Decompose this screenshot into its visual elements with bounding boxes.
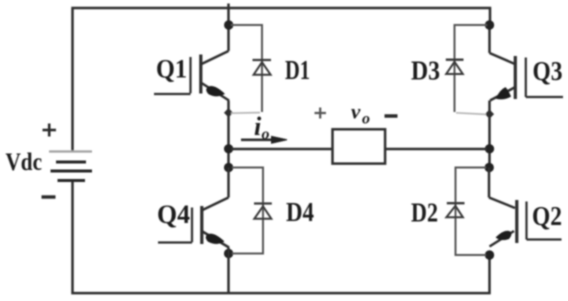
load box (333, 129, 386, 163)
transistor Q4 (158, 198, 229, 248)
node junction dot bottom-left (224, 249, 232, 257)
wire bottom rail (73, 181, 490, 294)
transistor Q1 (154, 51, 229, 101)
wire top rail (73, 8, 491, 152)
node junction dot right mid-rail (485, 145, 493, 153)
wire faint D1 return (231, 112, 260, 115)
svg-text:Vdc: Vdc (6, 149, 43, 176)
label battery plus (43, 124, 57, 137)
wire right leg middle (488, 101, 491, 168)
node junction dot right D2-branch (485, 163, 493, 171)
svg-text:v: v (351, 100, 361, 124)
label vo plus (315, 108, 327, 119)
svg-text:D4: D4 (286, 197, 314, 227)
node junction dot bottom-right (485, 251, 493, 259)
node junction dot top-right (485, 21, 493, 29)
node junction dot left D4-branch (224, 163, 232, 171)
node diamond junction right (486, 110, 494, 118)
svg-text:D3: D3 (411, 56, 440, 86)
svg-text:Q4: Q4 (157, 200, 190, 229)
svg-text:Q2: Q2 (532, 201, 562, 231)
label battery minus (42, 195, 56, 198)
label io current arrow (241, 136, 287, 143)
diode D1 (231, 25, 271, 112)
label vo minus (385, 114, 398, 118)
wire left leg lower (227, 168, 230, 198)
diode D3 (446, 25, 487, 112)
wire right leg lower (488, 168, 491, 198)
wire faint D3 return (456, 113, 486, 115)
diode D4 (232, 168, 272, 254)
node junction dot top-left (225, 21, 233, 29)
transistor Q2 (489, 198, 562, 247)
wire mid rail left (231, 148, 333, 151)
battery Vdc (49, 152, 92, 181)
svg-text:Q3: Q3 (533, 56, 563, 86)
diode D2 (446, 168, 486, 256)
transistor Q3 (490, 53, 564, 101)
wire left leg middle (227, 101, 230, 168)
svg-text:o: o (362, 111, 370, 128)
node junction dot left mid-rail (224, 145, 232, 153)
wire mid rail right (385, 148, 487, 151)
svg-text:D2: D2 (411, 198, 438, 228)
svg-text:o: o (262, 126, 270, 143)
wire right leg upper (488, 25, 491, 53)
svg-text:D1: D1 (285, 55, 310, 85)
wire left leg bottom (227, 248, 230, 294)
node diamond junction left (225, 109, 233, 117)
svg-text:Q1: Q1 (156, 55, 187, 84)
wire left leg upper (227, 4, 230, 52)
